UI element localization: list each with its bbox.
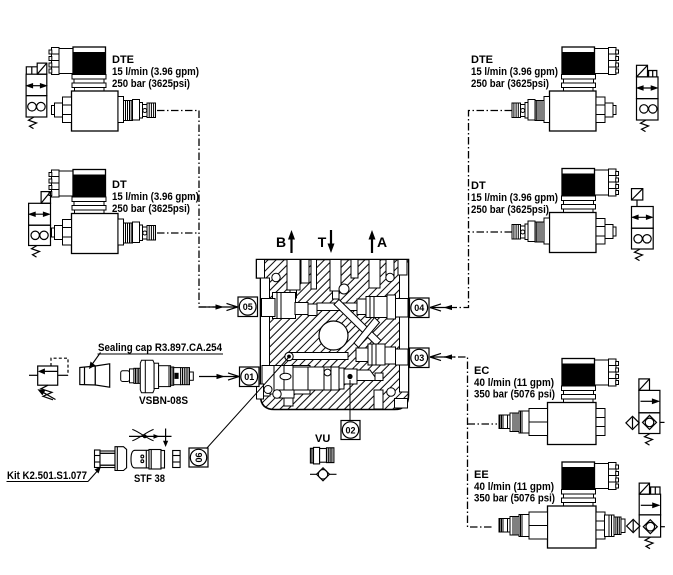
svg-text:350 bar (5076 psi): 350 bar (5076 psi): [474, 493, 555, 505]
svg-text:40 l/min (11 gpm): 40 l/min (11 gpm): [474, 377, 554, 389]
svg-text:06: 06: [194, 452, 204, 462]
svg-text:DT: DT: [112, 179, 127, 191]
svg-text:250 bar (3625psi): 250 bar (3625psi): [471, 78, 549, 90]
svg-text:01: 01: [244, 372, 254, 382]
svg-text:DT: DT: [471, 180, 486, 192]
svg-text:15 l/min (3.96 gpm): 15 l/min (3.96 gpm): [112, 191, 199, 203]
svg-text:05: 05: [243, 302, 253, 312]
svg-text:A: A: [377, 234, 387, 250]
svg-text:03: 03: [414, 353, 424, 363]
svg-text:B: B: [276, 234, 286, 250]
svg-text:15 l/min (3.96 gpm): 15 l/min (3.96 gpm): [471, 192, 558, 204]
svg-text:VSBN-08S: VSBN-08S: [139, 395, 188, 407]
svg-text:02: 02: [345, 425, 355, 435]
svg-text:DTE: DTE: [471, 54, 493, 66]
svg-text:Kit K2.501.S1.077: Kit K2.501.S1.077: [7, 470, 87, 482]
svg-text:04: 04: [414, 303, 424, 313]
svg-text:40 l/min (11 gpm): 40 l/min (11 gpm): [474, 481, 554, 493]
svg-text:15 l/min (3.96 gpm): 15 l/min (3.96 gpm): [471, 66, 558, 78]
svg-text:350 bar (5076 psi): 350 bar (5076 psi): [474, 389, 555, 401]
svg-text:T: T: [318, 234, 327, 250]
svg-text:DTE: DTE: [112, 54, 134, 66]
svg-text:250 bar (3625psi): 250 bar (3625psi): [112, 203, 190, 215]
svg-text:EE: EE: [474, 469, 489, 481]
svg-text:EC: EC: [474, 365, 489, 377]
svg-text:15 l/min (3.96 gpm): 15 l/min (3.96 gpm): [112, 66, 199, 78]
svg-text:250 bar (3625psi): 250 bar (3625psi): [471, 204, 549, 216]
svg-text:Sealing cap R3.897.CA.254: Sealing cap R3.897.CA.254: [98, 342, 223, 354]
svg-text:STF 38: STF 38: [134, 473, 165, 485]
svg-text:250 bar (3625psi): 250 bar (3625psi): [112, 78, 190, 90]
svg-text:VU: VU: [315, 433, 330, 445]
